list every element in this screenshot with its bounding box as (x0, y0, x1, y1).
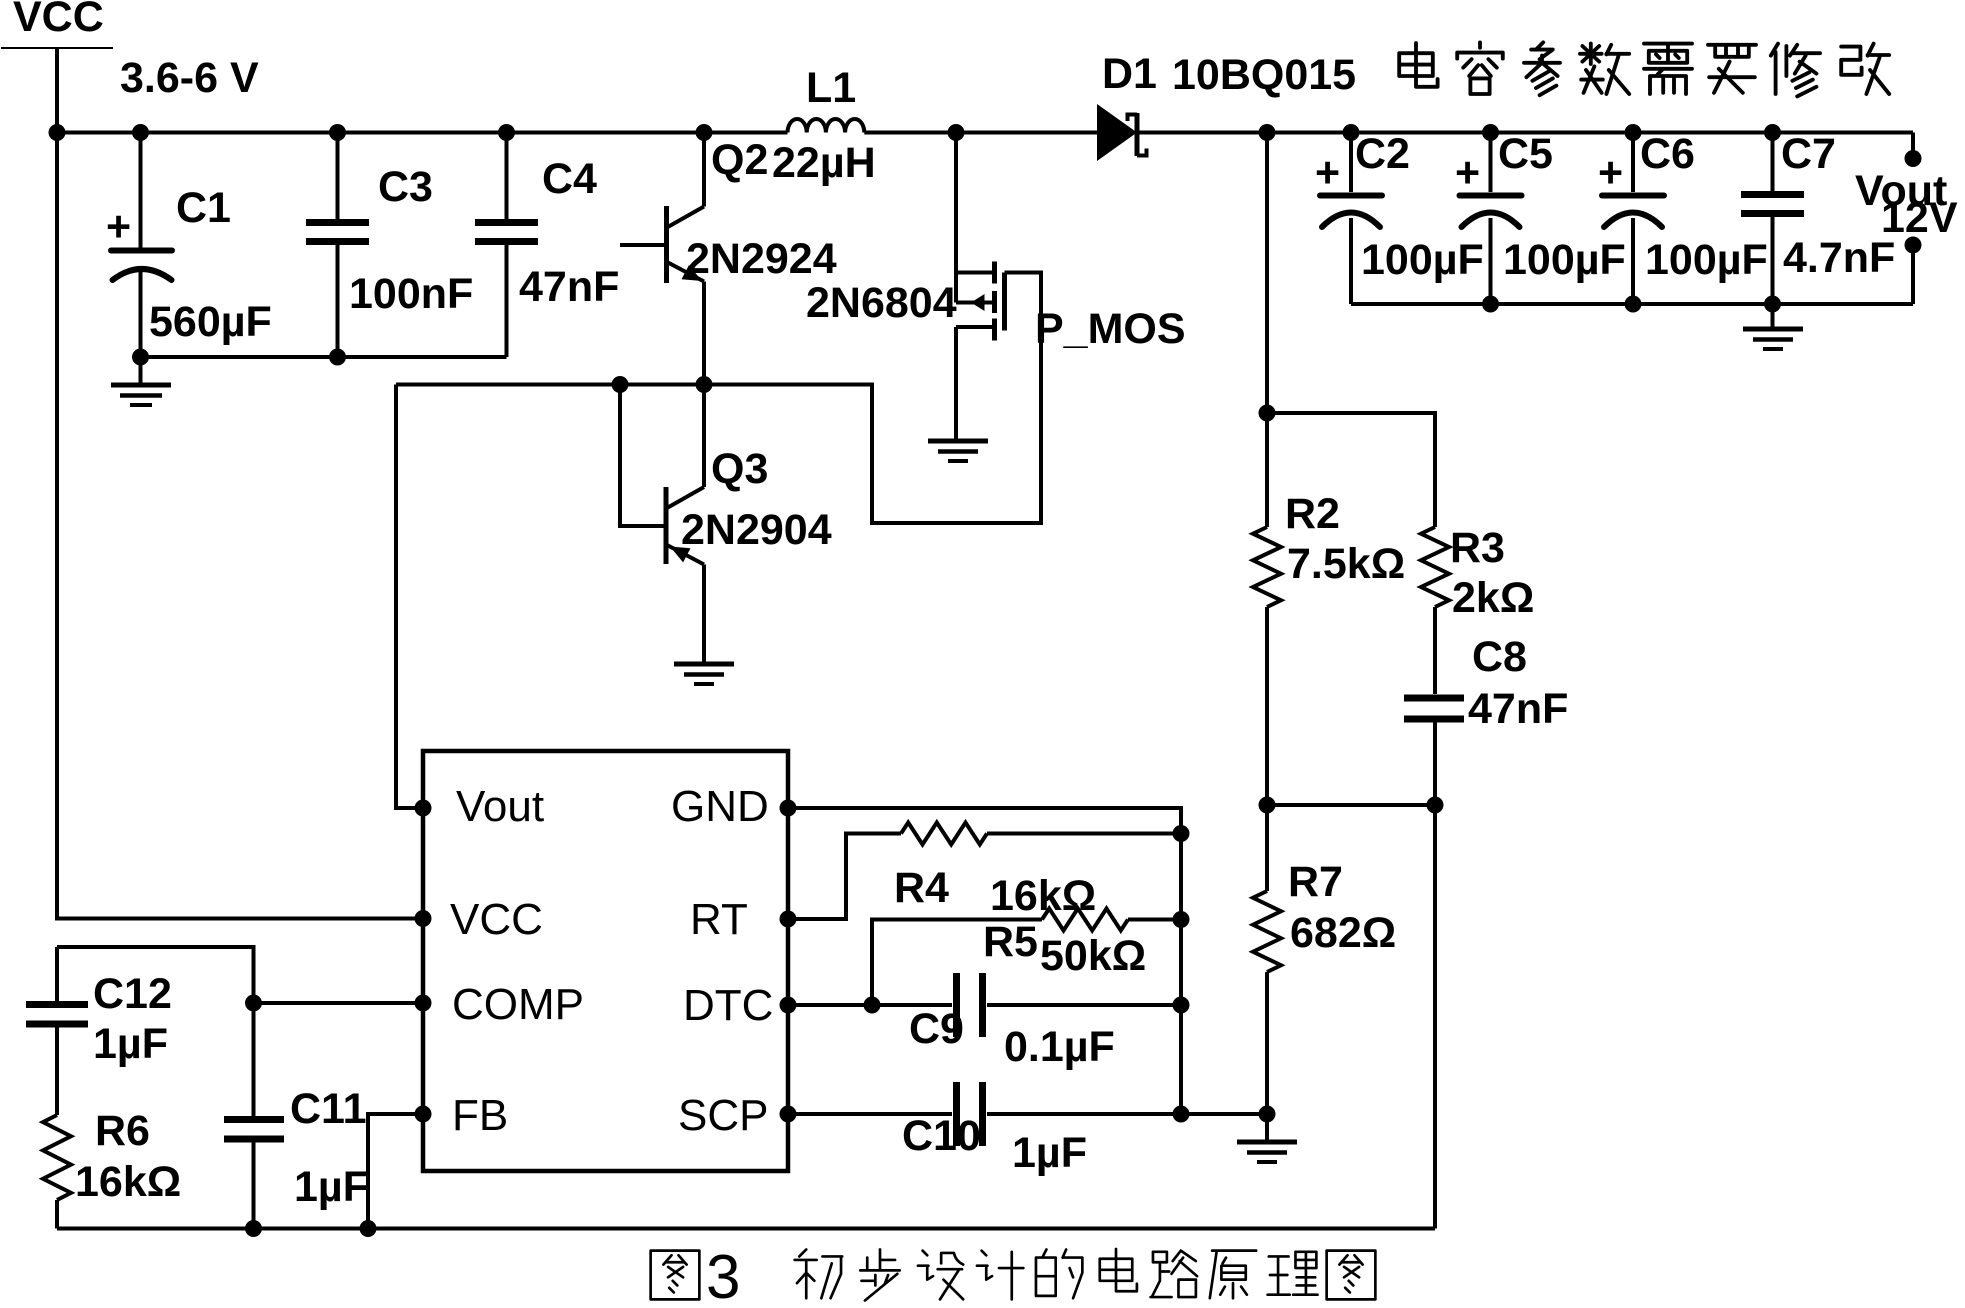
junction bus-C6 (1625, 124, 1642, 141)
IC U1 box (423, 751, 788, 1171)
junction emitters (696, 376, 713, 393)
svg-text:C2: C2 (1355, 130, 1410, 178)
wire Vout pin riser (396, 385, 421, 809)
wire bottom rail (57, 1227, 1435, 1231)
capacitor C2 (1320, 133, 1382, 305)
transistor Q3 (666, 385, 704, 665)
junction bus-C5 (1482, 124, 1499, 141)
svg-text:R7: R7 (1288, 858, 1343, 906)
capacitor C9 (957, 973, 983, 1037)
svg-text:100µF: 100µF (1645, 236, 1768, 284)
diode D1 (1097, 104, 1147, 161)
svg-text:3.6-6 V: 3.6-6 V (120, 54, 259, 102)
capacitor C6 (1602, 133, 1664, 305)
junction C5 bottom (1482, 296, 1499, 313)
svg-text:2N6804: 2N6804 (806, 279, 957, 327)
svg-text:47nF: 47nF (1468, 685, 1568, 733)
junction C9-GND (1173, 997, 1190, 1014)
svg-text:RT: RT (690, 895, 748, 944)
junction R4-GND (1173, 825, 1190, 842)
svg-text:R6: R6 (95, 1107, 150, 1155)
VCC symbol bar (1, 47, 113, 49)
wire top bus left (57, 131, 788, 135)
note text 电容参数需要修改 (1399, 42, 1889, 96)
caption 图3 初步设计的电路原理图 (651, 1249, 1376, 1301)
wire VCC rail left (57, 133, 423, 919)
junction bus-C1 (132, 124, 149, 141)
wire GND pin to vertical (788, 808, 1181, 1114)
svg-text:1µF: 1µF (294, 1163, 369, 1211)
svg-text:10BQ015: 10BQ015 (1172, 51, 1356, 99)
node pin RT (780, 911, 797, 928)
junction bases (612, 376, 629, 393)
svg-text:3: 3 (706, 1243, 740, 1308)
wire Q2 Q3 base riser (620, 385, 664, 527)
svg-text:C8: C8 (1472, 633, 1527, 681)
capacitor C7 (1741, 133, 1804, 305)
svg-text:R3: R3 (1450, 524, 1505, 572)
svg-text:DTC: DTC (683, 981, 773, 1030)
capacitor C3 (306, 133, 369, 358)
node Vout terminal upper (1905, 150, 1922, 167)
wire divider top cross (1267, 413, 1435, 527)
transistor Q2 (620, 133, 704, 385)
node pin SCP (780, 1106, 797, 1123)
wire R5 left leg (872, 920, 1042, 1006)
wire divider to bottom rail (1433, 805, 1437, 1229)
junction bus-VCC (49, 124, 66, 141)
wire input cap bottom bus (141, 355, 507, 359)
junction COMP-C11 (245, 995, 262, 1012)
inductor L1 (788, 119, 865, 133)
svg-text:2N2924: 2N2924 (686, 235, 837, 283)
svg-text:0.1µF: 0.1µF (1004, 1023, 1115, 1071)
svg-text:4.7nF: 4.7nF (1783, 234, 1895, 282)
wire base drive node (396, 273, 1041, 524)
svg-text:D1: D1 (1102, 50, 1157, 98)
ground at Q3 (674, 664, 734, 684)
wire VCC drop (55, 48, 59, 133)
node pin COMP (415, 995, 432, 1012)
wire SCP line left (788, 1112, 952, 1116)
svg-text:R4: R4 (894, 864, 949, 912)
svg-text:C7: C7 (1781, 130, 1836, 178)
ground at Q1 (928, 441, 988, 461)
svg-text:16kΩ: 16kΩ (75, 1158, 181, 1206)
wire R4 to GND vertical (987, 832, 1181, 836)
wire top bus right of D1 (1137, 131, 1913, 135)
svg-text:VCC: VCC (450, 895, 543, 944)
svg-text:C6: C6 (1640, 130, 1695, 178)
junction C3 bottom (329, 349, 346, 366)
svg-text:7.5kΩ: 7.5kΩ (1287, 540, 1405, 588)
svg-text:2N2904: 2N2904 (681, 506, 832, 554)
svg-text:100nF: 100nF (349, 270, 473, 318)
svg-text:+: + (1315, 149, 1340, 197)
ground at C7 (1743, 304, 1803, 349)
ground at R7 (1237, 1114, 1297, 1162)
capacitor C10 (957, 1082, 983, 1146)
junction C1 bottom (132, 349, 149, 366)
wire COMP branch top (57, 947, 254, 1003)
junction C11-rail (245, 1220, 262, 1237)
svg-text:C10: C10 (902, 1112, 981, 1160)
wire DTC line right (987, 1003, 1181, 1007)
svg-text:C1: C1 (176, 184, 231, 232)
junction bus-R2 (1259, 124, 1276, 141)
junction DTC-R5 (864, 997, 881, 1014)
junction R7 bottom (1259, 1106, 1276, 1123)
resistor R7 (1253, 805, 1281, 1114)
wire DTC line left (788, 1003, 952, 1007)
svg-text:VCC: VCC (13, 0, 104, 41)
svg-text:C9: C9 (909, 1005, 964, 1053)
svg-text:682Ω: 682Ω (1290, 909, 1396, 957)
svg-text:+: + (1598, 149, 1623, 197)
junction divider top (1259, 405, 1276, 422)
node Vout terminal lower (1905, 237, 1922, 254)
junction R2 bottom (1259, 797, 1276, 814)
junction bus-Q1 (948, 124, 965, 141)
node pin DTC (780, 997, 797, 1014)
svg-text:COMP: COMP (452, 980, 584, 1029)
capacitor C4 (475, 133, 538, 358)
svg-text:C12: C12 (93, 970, 172, 1018)
svg-text:22µH: 22µH (772, 139, 876, 187)
junction bus-Q2 (696, 124, 713, 141)
transistor Q1 P-MOS 2N6804 (956, 133, 1005, 442)
svg-text:+: + (1455, 149, 1480, 197)
resistor R4 (901, 823, 987, 845)
svg-text:+: + (106, 203, 131, 251)
svg-text:2kΩ: 2kΩ (1452, 574, 1534, 622)
svg-text:560µF: 560µF (149, 298, 272, 346)
svg-text:Vout: Vout (456, 782, 544, 831)
svg-text:L1: L1 (806, 64, 856, 112)
node pin FB (415, 1106, 432, 1123)
wire to Vout terminal (1911, 133, 1915, 159)
svg-text:100µF: 100µF (1503, 236, 1626, 284)
svg-text:C5: C5 (1498, 130, 1553, 178)
wire R5 to GND vertical (1128, 918, 1181, 922)
resistor R2 (1253, 413, 1281, 805)
svg-text:Q3: Q3 (711, 445, 768, 493)
wire divider mid cross (1267, 803, 1435, 807)
junction R5-GND (1173, 911, 1190, 928)
junction bus-C4 (498, 124, 515, 141)
capacitor C5 (1460, 133, 1522, 305)
junction C8 bottom (1427, 797, 1444, 814)
junction bus-C2 (1343, 124, 1360, 141)
node pin Vout (415, 800, 432, 817)
svg-text:Q2: Q2 (711, 136, 768, 184)
svg-text:100µF: 100µF (1361, 236, 1484, 284)
wire top bus right of L1 (864, 131, 1097, 135)
junction bus-C7 (1764, 124, 1781, 141)
capacitor C11 (224, 1003, 284, 1229)
svg-text:C11: C11 (290, 1085, 367, 1133)
ground at C1 (111, 357, 171, 405)
node pin VCC (415, 910, 432, 927)
svg-text:FB: FB (452, 1091, 508, 1140)
node pin GND (780, 800, 797, 817)
wire output bottom rail (1351, 302, 1913, 306)
junction FB-rail (360, 1220, 377, 1237)
capacitor C12 (26, 947, 88, 1115)
wire SCP line right (987, 1112, 1267, 1116)
resistor R5 (1042, 909, 1128, 931)
wire feedback tap drop (1265, 133, 1269, 414)
capacitor C1 (111, 133, 172, 358)
wire Vout terminal to output rail (1911, 245, 1915, 304)
svg-text:47nF: 47nF (519, 263, 619, 311)
junction bus-C3 (329, 124, 346, 141)
wire FB pin drop (368, 1114, 421, 1229)
junction C7 bottom (1764, 296, 1781, 313)
resistor R3 (1421, 527, 1449, 694)
svg-text:C3: C3 (378, 163, 433, 211)
svg-text:R5: R5 (983, 918, 1038, 966)
svg-text:50kΩ: 50kΩ (1040, 932, 1146, 980)
svg-text:1µF: 1µF (1012, 1129, 1087, 1177)
wire RT pin stub (788, 834, 901, 920)
svg-text:1µF: 1µF (93, 1020, 168, 1068)
junction C6 bottom (1625, 296, 1642, 313)
wire COMP pin (254, 1001, 424, 1005)
svg-text:C4: C4 (542, 155, 597, 203)
svg-text:SCP: SCP (678, 1091, 768, 1140)
junction C10-GND (1173, 1106, 1190, 1123)
resistor R6 (43, 1115, 71, 1229)
svg-text:R2: R2 (1285, 490, 1340, 538)
svg-text:P_MOS: P_MOS (1035, 305, 1186, 353)
svg-text:GND: GND (671, 782, 769, 831)
capacitor C8 (1404, 698, 1464, 805)
